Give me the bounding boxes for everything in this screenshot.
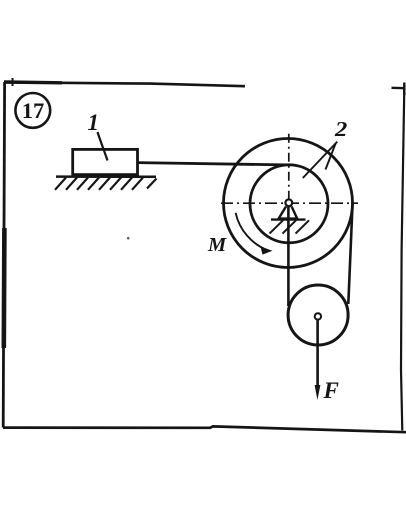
frame top border (right stub at corner) xyxy=(392,83,406,96)
leader line from 2 to inner drum xyxy=(303,142,338,178)
centerline horizontal (dash-dot) xyxy=(221,202,358,204)
small pulley axle dot xyxy=(315,313,321,319)
label F xyxy=(323,378,339,403)
pivot support triangle xyxy=(279,207,298,219)
svg-text:M: M xyxy=(207,234,227,256)
label M xyxy=(207,234,227,256)
ground line under block xyxy=(56,175,156,178)
force F arrow xyxy=(315,320,321,400)
rope from block to inner drum xyxy=(138,163,287,165)
frame top border (left part) xyxy=(4,78,245,86)
label 1 xyxy=(88,110,108,160)
speck xyxy=(127,237,130,240)
rope from pulley axle down to small pulley (left) xyxy=(287,206,290,306)
svg-text:F: F xyxy=(323,378,339,403)
pulley 2 outer circle xyxy=(224,139,353,268)
moment M arrowhead xyxy=(261,247,273,255)
leader line from 2 to outer rim xyxy=(326,143,336,170)
moment M arc xyxy=(236,213,268,251)
rope from outer rim down to small pulley (right) xyxy=(348,203,352,305)
svg-text:2: 2 xyxy=(334,117,348,141)
frame bottom border xyxy=(3,426,406,432)
svg-text:17: 17 xyxy=(22,98,45,123)
frame left border xyxy=(3,82,4,428)
svg-text:1: 1 xyxy=(88,110,100,135)
pivot support base line xyxy=(271,218,306,220)
ground hatching under block xyxy=(55,178,157,190)
problem number circle 17 xyxy=(15,93,50,128)
pivot support hatching xyxy=(270,220,310,233)
frame right border xyxy=(401,88,404,431)
label 2 xyxy=(334,117,348,141)
pulley 2 inner drum circle xyxy=(250,165,328,243)
block 1 xyxy=(73,149,138,174)
small pulley 3 xyxy=(288,285,348,345)
centerline vertical (dash-dot) xyxy=(288,134,290,199)
pivot pin circle xyxy=(285,199,292,206)
